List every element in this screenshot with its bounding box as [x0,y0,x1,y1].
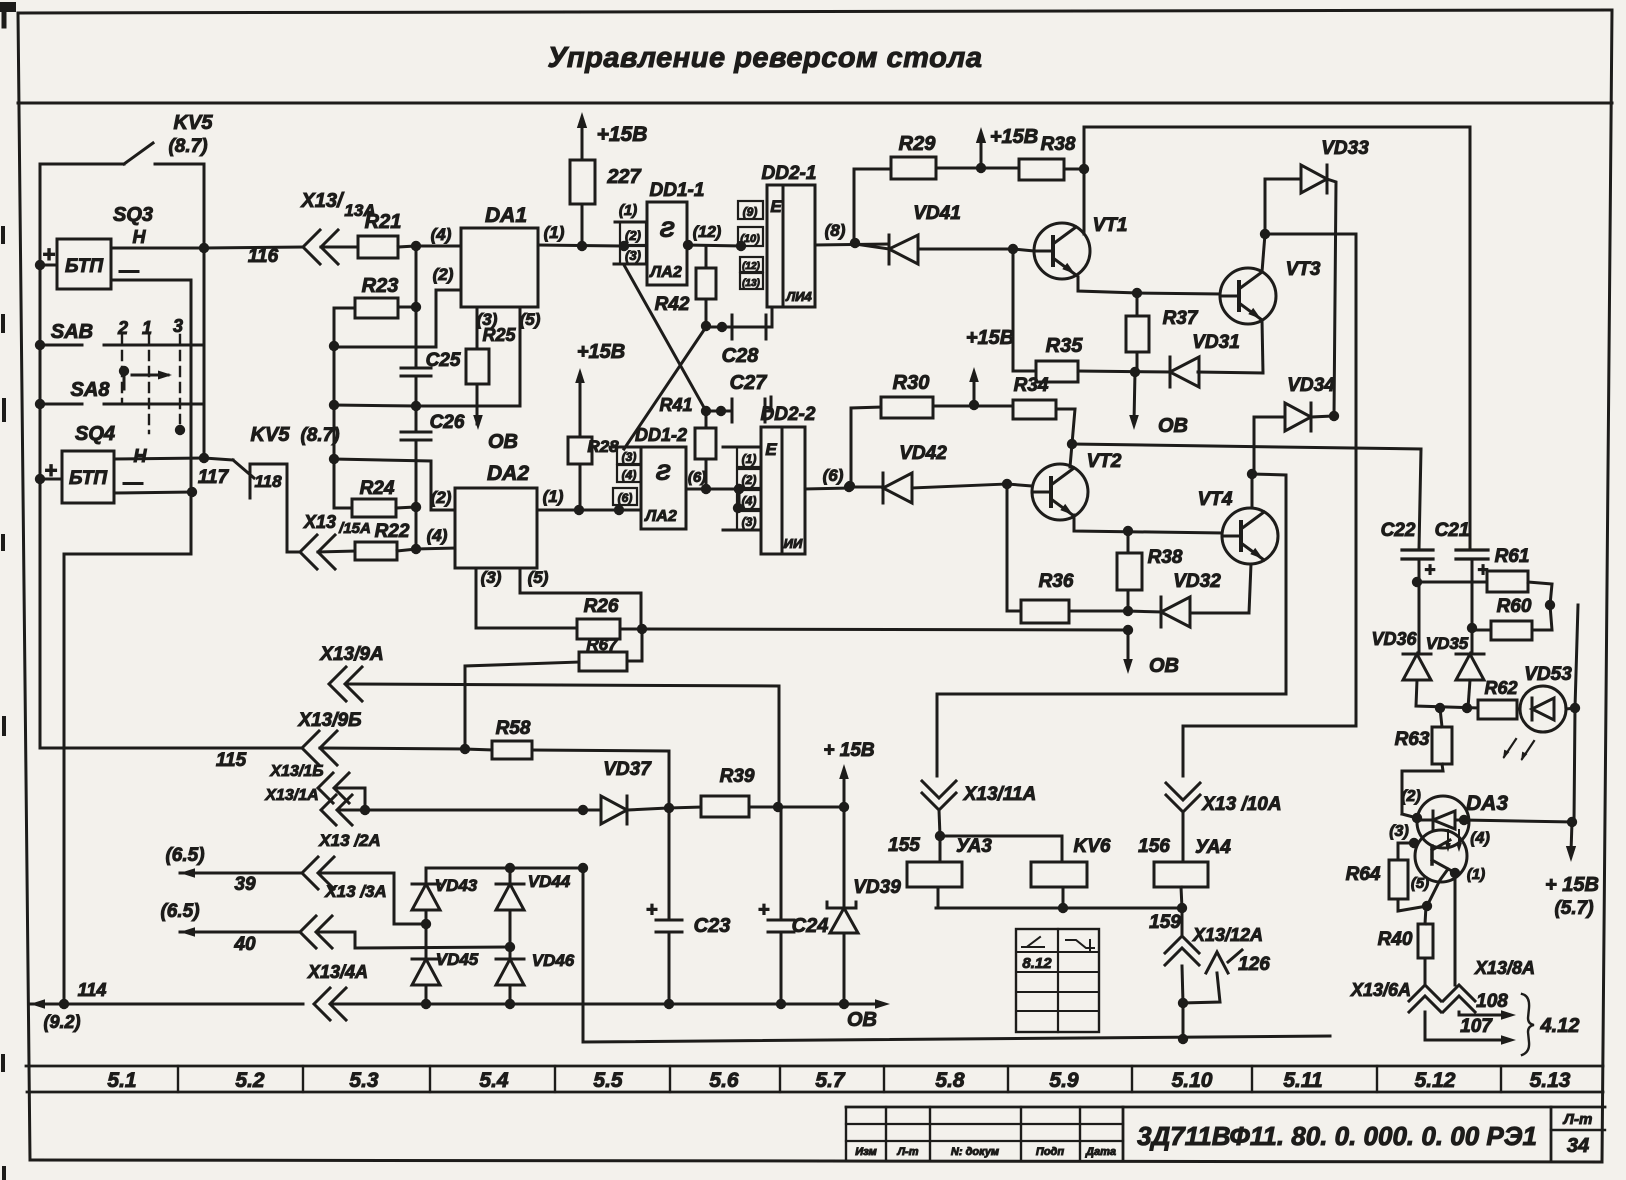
svg-text:(4): (4) [1470,830,1490,847]
resistor 227 [570,160,642,251]
svg-text:X13/1Б: X13/1Б [269,763,323,780]
DA3 phototransistor [1427,840,1450,906]
svg-text:ОВ: ОВ [1149,655,1179,677]
wire VT1 emitter [1078,277,1142,298]
svg-text:39: 39 [234,874,256,895]
resistor R58 [320,718,669,808]
svg-text:VD39: VD39 [853,877,901,898]
connector X13/1Б [269,763,365,810]
svg-text:ЛА2: ЛА2 [649,264,682,281]
pin (6) DD1-2 output [686,469,744,494]
svg-text:VD42: VD42 [899,443,947,464]
label DA2 pin (3) [476,568,577,628]
svg-text:SQ3: SQ3 [113,204,153,226]
transistor VT4 [1198,489,1278,564]
transistor VT1 [1034,215,1127,279]
svg-text:X13/11A: X13/11A [963,784,1037,805]
svg-text:+: + [646,899,658,921]
pin (4) DD2-2 [737,490,761,509]
svg-text:(3): (3) [625,248,641,263]
LED emission arrows [1500,739,1534,762]
svg-text:Е: Е [765,440,777,459]
capacitor C28 [706,309,772,367]
svg-text:(1): (1) [1467,866,1485,883]
svg-text:155: 155 [888,835,920,856]
svg-text:R64: R64 [1346,864,1381,885]
wire 117 [114,467,230,493]
svg-text:(6): (6) [823,466,844,485]
capacitor C21 [1435,520,1489,654]
svg-text:(5.7): (5.7) [1554,898,1593,919]
wire VT2 base [1007,484,1032,611]
zone ruler band [26,1066,1603,1092]
svg-text:SQ4: SQ4 [75,423,115,445]
label DA1 pin (3) [477,310,498,329]
svg-text:УА4: УА4 [1195,837,1231,858]
capacitor C22 [1381,520,1436,654]
label 108 [1476,991,1508,1012]
svg-text:(6.5): (6.5) [160,901,199,922]
wire SQ4 H [114,453,209,463]
svg-text:107: 107 [1460,1016,1493,1037]
svg-text:5.5: 5.5 [593,1069,623,1092]
svg-text:Управление реверсом стола: Управление реверсом стола [548,42,983,74]
resistor R41 [659,395,716,494]
node DD1-1 input [619,241,629,251]
svg-text:VD41: VD41 [913,203,961,224]
svg-text:5.6: 5.6 [709,1069,739,1092]
svg-text:R23: R23 [362,275,399,297]
brace 4.12 [1522,994,1579,1055]
svg-text:/15A: /15A [338,520,371,537]
wire 114 [30,980,303,1032]
relay coil KV6 [940,836,1111,908]
pin (3) DD1-1 [614,246,647,264]
wire VT3 collector [1260,229,1270,272]
svg-text:C27: C27 [730,372,768,394]
relay coil УА3 [888,835,992,908]
connector X13/10A [1166,760,1282,862]
ground ОВ under R25 [473,384,518,453]
connector X13/13A [300,190,375,264]
resistor R64 [1346,860,1433,911]
title separator line [18,102,1612,105]
svg-text:+15В: +15В [597,123,648,146]
svg-text:VD45: VD45 [436,950,479,969]
svg-text:SA8: SA8 [71,379,111,401]
switch SAB row [40,248,204,458]
svg-text:X13 /10A: X13 /10A [1201,794,1281,815]
resistor R35 [1013,335,1170,382]
svg-text:116: 116 [248,246,279,267]
svg-text:R22: R22 [375,521,410,542]
svg-text:40: 40 [233,934,256,955]
label DA1 pin (1) [538,223,620,246]
svg-text:Л-т: Л-т [1563,1111,1593,1128]
label SQ3 [113,204,153,282]
pin (3) DA3 [1389,823,1419,860]
resistor R30 [845,372,979,491]
pin (6) DD1-2 input [613,488,637,505]
svg-text:156: 156 [1138,836,1170,857]
wire long ОВ return [642,625,1133,635]
pin (12) DD2-1 [740,257,763,272]
svg-text:2: 2 [117,318,128,338]
svg-text:Е: Е [770,197,782,216]
pin (10) DD2-1 [738,227,763,246]
power +15В (VT1) [976,126,1038,168]
svg-text:VT1: VT1 [1093,215,1128,236]
wire 116 [111,243,303,267]
wire DD1-2 out to DD2-2 [739,488,761,491]
wire VT2 collector [1070,444,1072,467]
contact table [1016,929,1099,1032]
pin (1) DD2-2 [723,447,761,467]
power +15В (R39) [823,740,875,807]
svg-text:5.1: 5.1 [107,1069,136,1092]
svg-text:X13/9Б: X13/9Б [297,710,361,731]
pin (1) DA3 [1450,866,1485,985]
svg-text:X13/8A: X13/8A [1474,958,1535,978]
label SQ4 [75,423,148,494]
svg-text:R40: R40 [1378,929,1413,950]
pin (9) DD2-1 [738,201,763,219]
logic IC DD2-1 [762,163,817,307]
diode VD43 [412,868,478,924]
svg-text:Дата: Дата [1085,1146,1116,1158]
wire SQ3 minus to 114 rail [64,280,197,1004]
wire VT3 base [1137,293,1220,294]
pin (5) DA3 [1411,875,1429,892]
wire 39 to (6.5) [165,845,302,895]
diode VD35 [1426,634,1484,708]
svg-text:(9): (9) [743,205,758,219]
svg-text:R37: R37 [1163,308,1199,329]
diode VD42 [849,443,1012,503]
relay contact KV5 [40,143,204,248]
svg-text:R36: R36 [1039,571,1074,592]
svg-text:VT2: VT2 [1087,451,1122,472]
svg-text:(4): (4) [431,225,452,244]
svg-text:(2): (2) [433,265,454,284]
cross wire DD1-1 to C27 [624,265,706,411]
capacitor C23 [646,808,730,1004]
wire VT3 emitter [1262,320,1263,373]
connector 126 [1183,950,1270,1003]
wire 40 to (6.5) [160,901,300,955]
ground ОВ under VD32 node [1123,630,1179,677]
diode VD44 [496,868,571,947]
diode VD33 [1265,138,1369,416]
relay coil УА4 [1138,836,1231,908]
svg-text:+ 15В: + 15В [823,740,875,761]
resistor R42 [655,246,716,331]
svg-text:DD2-1: DD2-1 [762,163,817,184]
capacitor C27 [701,372,771,422]
ground ОВ under R37 [1129,372,1188,437]
svg-text:(1): (1) [543,487,564,506]
svg-text:3: 3 [173,316,183,336]
pin (1) DD1-1 [615,202,647,222]
svg-text:(12): (12) [742,261,760,272]
svg-text:R30: R30 [893,372,930,394]
logic IC DD2-2 [761,404,816,554]
svg-text:(1): (1) [742,452,757,466]
svg-text:N: докум: N: докум [951,1146,999,1158]
wire VT2 emitter [1074,515,1222,536]
svg-text:(5): (5) [528,568,549,587]
label DA2 pin (4) [416,526,455,549]
svg-text:(1): (1) [619,202,637,219]
DA3 LED [1417,811,1464,829]
wire VT1 collector [1083,169,1086,234]
svg-text:C23: C23 [694,915,731,937]
resistor R22 [318,521,416,560]
connector X13/12A [1165,925,1263,1039]
capacitor C25 [401,350,461,376]
svg-text:227: 227 [606,166,641,188]
pin (4) DA3 [1459,815,1572,847]
svg-text:R29: R29 [899,133,937,155]
resistor R25 [466,307,516,384]
diode VD31 [1170,332,1263,387]
svg-text:DD1-1: DD1-1 [650,180,705,201]
svg-text:C21: C21 [1435,520,1470,541]
svg-text:VD36: VD36 [1371,629,1417,649]
svg-text:R42: R42 [655,294,690,315]
svg-text:VD46: VD46 [532,951,575,970]
svg-text:KV6: KV6 [1074,836,1111,857]
power +15В (R28) [575,341,625,437]
svg-text:C28: C28 [722,345,760,367]
svg-text:VD31: VD31 [1192,332,1240,353]
resistor R24 [334,478,416,517]
svg-text:KV5: KV5 [174,112,214,134]
svg-text:VD35: VD35 [1426,634,1469,653]
pin (2) DA3 [1401,788,1422,823]
svg-text:R35: R35 [1046,335,1084,357]
label DA2 pin (1) [537,487,641,515]
svg-text:ОВ: ОВ [1158,415,1188,437]
pin (2) DD2-2 [737,469,761,488]
svg-text:УА3: УА3 [956,836,992,857]
svg-text:+15В: +15В [966,327,1014,349]
svg-text:X13: X13 [303,512,336,532]
label 107 [1460,1016,1493,1037]
svg-text:R38: R38 [1041,134,1076,155]
zener VD39 [827,807,901,1004]
svg-text:5.12: 5.12 [1415,1069,1456,1092]
svg-text:5.7: 5.7 [815,1069,846,1092]
wire VT4 collector [1247,469,1257,508]
LED VD53 [1517,664,1580,732]
svg-text:DD2-2: DD2-2 [761,404,816,425]
resistor R39 [669,766,849,817]
resistor R63 [1395,708,1452,818]
diode VD37 [601,759,669,824]
wire relay common [936,903,1187,913]
svg-text:X13/9A: X13/9A [319,644,383,665]
svg-text:5.3: 5.3 [349,1069,379,1092]
svg-text:C22: C22 [1381,520,1416,541]
svg-text:115: 115 [216,750,247,771]
diode VD41 [855,203,1018,264]
svg-text:X13/: X13/ [300,190,345,212]
svg-text:(13): (13) [742,278,760,289]
svg-text:X13/4A: X13/4A [307,962,368,982]
svg-text:DA1: DA1 [485,204,527,227]
svg-text:5.8: 5.8 [935,1069,965,1092]
svg-text:VD34: VD34 [1287,375,1335,396]
diode VD34 [1254,375,1339,474]
transducer unit SQ3 БТП [40,239,111,289]
svg-text:(3): (3) [481,568,502,587]
svg-text:БТП: БТП [65,256,103,277]
svg-text:108: 108 [1476,991,1508,1012]
svg-text:VD32: VD32 [1173,571,1221,592]
svg-text:ОВ: ОВ [488,431,518,453]
svg-text:+: + [1424,560,1435,581]
switch SA8 wiper [119,366,172,389]
svg-text:VD44: VD44 [528,872,571,891]
transistor VT2 [1032,451,1122,520]
resistor R62 [1478,678,1518,719]
svg-text:VD43: VD43 [435,876,478,895]
label SA8 [71,379,111,401]
connector X13/3A [300,882,515,952]
svg-text:C24: C24 [792,915,829,937]
svg-text:(5): (5) [1411,875,1429,892]
svg-text:C25: C25 [426,350,461,371]
connector X13/11A [922,760,1036,841]
svg-text:(2): (2) [1401,788,1421,805]
svg-text:+: + [43,242,56,267]
svg-text:H: H [133,227,147,247]
rail with R-C chain [411,241,421,554]
resistor R37 [1126,293,1199,377]
wire 118 [287,464,300,552]
svg-text:R39: R39 [720,766,755,787]
svg-text:(5): (5) [520,310,541,329]
wire left rail [35,164,45,748]
svg-text:X13 /2A: X13 /2A [318,831,380,850]
logic gate DD1-2 [635,425,687,529]
logic gate DD1-1 [647,180,704,285]
svg-text:5.10: 5.10 [1172,1069,1213,1092]
connector X13/1А [264,787,352,825]
wire ОВ rail bottom [332,999,890,1031]
op-amp DA1 [461,204,538,307]
capacitor C24 [758,807,828,1004]
connector X13/9Б [297,710,361,765]
schematic title [548,42,983,74]
diode VD46 [496,947,575,1004]
svg-text:R38: R38 [1148,547,1183,568]
svg-text:(12): (12) [693,224,721,241]
wire X13/1A line [339,803,674,815]
pin (3) DD2-2 [723,511,761,530]
title block small captions [855,1146,1116,1158]
svg-text:117: 117 [198,467,230,488]
transducer unit SQ4 БТП [40,451,114,503]
label DA1 pin (2) [334,265,461,347]
wire diode bridge top rail [426,863,588,873]
node DD2-2 input [733,484,744,513]
connector X13/2A [302,831,431,929]
svg-text:(1): (1) [544,223,565,242]
svg-text:(3): (3) [622,450,637,464]
resistor R28 [568,437,619,510]
svg-text:ЛИ4: ЛИ4 [785,289,812,304]
svg-text:R25: R25 [482,325,516,345]
svg-text:+: + [758,899,770,921]
svg-text:VT4: VT4 [1198,489,1233,510]
svg-text:X13/6A: X13/6A [1350,980,1411,1000]
svg-text:VT3: VT3 [1286,259,1321,280]
svg-text:R21: R21 [365,211,402,233]
svg-text:H: H [134,446,148,466]
svg-text:(8.7): (8.7) [168,136,207,157]
cross wire C28 to DD1-2 [624,327,706,449]
svg-text:ОВ: ОВ [847,1009,877,1031]
svg-text:(4): (4) [427,526,448,545]
svg-text:X13 /3A: X13 /3A [324,882,386,901]
wire 115 [40,748,302,771]
power +15В (VT2) [966,327,1014,405]
svg-text:Л-т: Л-т [896,1146,918,1158]
svg-text:R67: R67 [586,635,619,654]
sheet caption [1563,1111,1593,1157]
svg-text:1: 1 [142,318,152,338]
connector X13/6A [1350,980,1516,1045]
resistor R60 [1472,596,1552,640]
svg-text:DA3: DA3 [1466,792,1508,815]
svg-text:БТП: БТП [69,468,107,489]
switch SA8 row [40,403,204,406]
svg-text:R58: R58 [496,718,531,739]
svg-text:5.11: 5.11 [1283,1069,1322,1092]
svg-text:Ƨ: Ƨ [660,217,675,242]
title block grid [846,1107,1605,1160]
svg-text:X13/12A: X13/12A [1192,925,1263,945]
svg-text:+15В: +15В [990,126,1038,148]
resistor R38 upper [981,134,1089,180]
svg-text:3Д711ВФ11. 80. 0. 000. 0. 00 Р: 3Д711ВФ11. 80. 0. 000. 0. 00 РЭ1 [1137,1121,1537,1151]
svg-text:DA2: DA2 [487,462,529,485]
svg-text:DD1-2: DD1-2 [635,425,687,445]
diode VD36 [1371,629,1478,713]
svg-text:VD37: VD37 [603,759,652,780]
svg-text:X13/1А: X13/1А [264,787,318,804]
resistor R26 [577,596,647,639]
svg-text:126: 126 [1238,954,1270,975]
wire ОВ rail to C22 [1072,444,1421,549]
svg-text:(6): (6) [618,491,633,505]
svg-text:8.12: 8.12 [1022,955,1052,972]
svg-text:+15В: +15В [577,341,625,363]
svg-text:114: 114 [78,980,107,1000]
label DA1 pin (4) [416,225,461,246]
svg-text:R26: R26 [584,596,619,617]
switch contact columns [122,335,185,435]
resistor R61 [1417,546,1555,610]
document number [1137,1121,1537,1151]
resistor R29 [854,133,986,243]
svg-text:Подп: Подп [1036,1146,1064,1158]
svg-text:R60: R60 [1497,596,1532,617]
resistor R21 [321,211,416,258]
node DD2-1 input [736,241,746,251]
